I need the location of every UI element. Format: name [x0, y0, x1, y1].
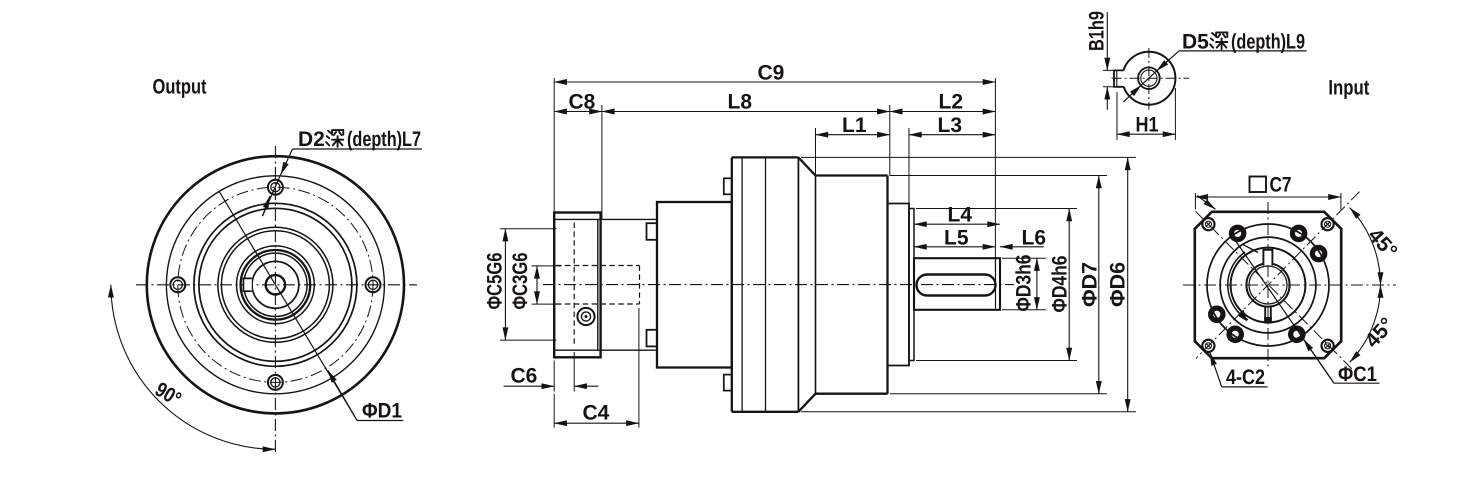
dim L2: [890, 111, 996, 113]
pilot boss circle inner: [199, 208, 352, 361]
corner leader arrow: [1197, 196, 1216, 210]
dim C9: [554, 81, 995, 83]
PhiD1 leader line through center: [219, 191, 357, 420]
svg-text:Output: Output: [153, 76, 207, 99]
svg-text:ΦD1: ΦD1: [362, 400, 402, 423]
clamp screw blob: [1264, 317, 1272, 324]
dim C4: [554, 422, 639, 424]
PhiD1 underline: [357, 420, 403, 422]
90 degree arc: [111, 285, 276, 450]
svg-text:L2: L2: [939, 91, 964, 114]
dim C6 tails: [504, 385, 555, 387]
bore circle inner: [1249, 266, 1287, 304]
bolt circle: [1207, 224, 1329, 346]
motor section rear face: [886, 176, 888, 394]
D2 leader underline: [293, 148, 423, 150]
bolt hole bottom: [268, 375, 283, 390]
hub ring inner: [244, 253, 307, 316]
ring gear section left face: [731, 157, 733, 411]
motor section bottom edge with chamfer: [798, 394, 887, 412]
hidden counterbore depth line: [573, 223, 575, 347]
bolt hole top: [268, 180, 283, 195]
ext line C6 left: [553, 361, 555, 392]
dim PhiC5G6: [504, 229, 506, 340]
dim L6 arrow: [1000, 246, 1044, 248]
dim L8: [602, 111, 890, 113]
pilot boss circle outer: [194, 203, 357, 366]
C7 ext lines: [1195, 193, 1341, 210]
corner screw TL: [1202, 218, 1214, 230]
D5 leader underline: [1179, 50, 1307, 52]
svg-text:C4: C4: [583, 402, 610, 425]
PhiC1 leader: [1231, 235, 1334, 384]
svg-text:C7: C7: [1270, 174, 1292, 197]
dim L3: [909, 134, 995, 136]
B1h9 ext ticks: [1103, 70, 1115, 86]
tapped hole D5 outer: [1138, 67, 1160, 89]
dim PhiD6: [1127, 157, 1129, 411]
clamp lug: [1238, 310, 1248, 322]
svg-text:(depth)L9: (depth)L9: [1231, 30, 1305, 53]
collar gap line: [1242, 244, 1258, 253]
svg-text:ΦC5G6: ΦC5G6: [484, 253, 507, 310]
PhiC1 underline: [1334, 382, 1380, 384]
svg-text:Input: Input: [1328, 76, 1369, 99]
output flange body: [554, 213, 600, 358]
flange step circle: [166, 176, 384, 394]
svg-text:ΦD4h6: ΦD4h6: [1049, 256, 1072, 313]
svg-text:D5: D5: [1182, 30, 1209, 53]
hub ring middle: [241, 250, 311, 320]
shaft keyway slot: [917, 275, 996, 296]
keyseat notch white cut: [1113, 70, 1126, 86]
corner screw BL: [1202, 340, 1214, 352]
flange outer circle: [147, 156, 404, 413]
dim PhiD7: [1098, 176, 1100, 394]
ext line C6 right: [573, 352, 575, 392]
square flange outline (chamfered corners): [1195, 212, 1341, 358]
45 deg arc upper: [1350, 208, 1381, 285]
bore keyway white cut: [1263, 249, 1273, 265]
face boss circle inner: [221, 231, 329, 339]
ring gear top edge: [732, 156, 799, 158]
ext line keyway end (long): [994, 78, 996, 272]
ext line L1 left: [815, 128, 817, 174]
ring gear right face: [797, 157, 799, 411]
dim PhiD3h6: [1036, 258, 1038, 310]
svg-text:D2: D2: [298, 128, 325, 151]
H1 ext lines: [1117, 88, 1175, 140]
bolt hole ring 6: [1211, 308, 1223, 320]
svg-text:90°: 90°: [151, 378, 185, 411]
bolt hole ring 1: [1231, 227, 1243, 239]
svg-text:B1h9: B1h9: [1086, 11, 1109, 51]
detail centerline horizontal: [1112, 77, 1189, 79]
dim C8: [554, 111, 602, 113]
centerline horizontal: [136, 284, 417, 286]
svg-text:ΦC1: ΦC1: [1338, 363, 1377, 386]
svg-text:L8: L8: [728, 91, 753, 114]
square centerline horizontal: [1183, 284, 1396, 286]
corner screw TR: [1322, 218, 1334, 230]
set screw: [577, 308, 594, 325]
ring gear joint line 2: [765, 157, 767, 411]
ext line C8 right / L8 left: [601, 105, 603, 219]
motor section top edge with chamfer: [798, 157, 887, 175]
ext lines PhiD3h6: [1002, 258, 1046, 310]
motor joint line: [815, 176, 817, 394]
bore keyway slot: [243, 278, 251, 291]
svg-text:ΦD6: ΦD6: [1107, 262, 1130, 307]
D2 leader line with two arrows: [281, 149, 293, 175]
housing tab top: [647, 223, 658, 240]
flange chamfer / boss top line: [555, 218, 657, 220]
ext lines PhiD6: [801, 157, 1136, 411]
svg-text:45°: 45°: [1363, 224, 1401, 263]
ext line L3 hub face: [908, 128, 910, 207]
ext line C9/C8 left: [553, 78, 555, 211]
keyseat notch inner line: [1116, 70, 1118, 86]
bolt head tab bottom: [724, 375, 732, 391]
D5 leader with two arrows: [1157, 51, 1179, 71]
svg-text:H1: H1: [1136, 114, 1159, 137]
side view centerline: [543, 284, 1014, 286]
clamp hub circle: [1231, 248, 1306, 323]
dim PhiD4h6: [1068, 209, 1070, 361]
front housing: [657, 202, 732, 368]
shaft end circle: [1122, 52, 1175, 105]
svg-text:ΦD7: ΦD7: [1079, 262, 1102, 307]
svg-text:C8: C8: [569, 91, 596, 114]
dim L1: [816, 134, 890, 136]
ext lines PhiD7: [890, 176, 1107, 394]
dim B1h9 arrows: [1106, 12, 1108, 70]
hidden bore bottom line: [556, 303, 640, 305]
diagonal centerline TL-BR: [1196, 211, 1353, 369]
flange inner edge: [597, 219, 599, 350]
bolt head tab top: [724, 178, 732, 194]
bolt hole ring 2: [1292, 227, 1304, 239]
ext line C4 right: [638, 308, 640, 428]
svg-text:ΦC3G6: ΦC3G6: [509, 253, 532, 310]
diagonal centerline TR-BL: [1196, 192, 1360, 359]
face boss circle outer: [218, 227, 333, 342]
centerline vertical: [274, 146, 276, 455]
cap hub disc: [909, 209, 914, 361]
bolt circle (dash-dot): [178, 187, 373, 382]
dim C7: [1195, 196, 1341, 198]
svg-text:L4: L4: [948, 204, 973, 227]
square centerline vertical: [1267, 202, 1269, 368]
svg-text:L3: L3: [938, 114, 963, 137]
4-C2 leader: [1210, 353, 1222, 387]
hub ring outer: [237, 246, 315, 324]
bolt hole ring 4: [1291, 328, 1303, 340]
ext line L8/L2 rear face: [889, 105, 891, 176]
center hole: [266, 275, 285, 294]
bore circle: [252, 261, 299, 308]
clamp collar arc: [1228, 252, 1248, 320]
ext line C4 left: [553, 394, 555, 428]
dim H1: [1117, 133, 1175, 135]
detail centerline vertical: [1148, 48, 1150, 110]
housing tab bottom: [647, 330, 658, 347]
svg-text:4-C2: 4-C2: [1226, 366, 1265, 389]
input shaft: [914, 258, 1000, 310]
hidden bore end line: [639, 266, 641, 305]
ring gear joint line 1: [741, 157, 743, 411]
4-C2 underline: [1222, 386, 1268, 388]
pilot circle: [1220, 237, 1316, 333]
corner screw BR: [1322, 340, 1334, 352]
bore circle outer: [1246, 263, 1289, 306]
tapped hole D5 inner: [1141, 70, 1157, 86]
svg-text:C9: C9: [758, 62, 785, 85]
svg-text:L1: L1: [842, 114, 867, 137]
svg-text:L6: L6: [1022, 226, 1047, 249]
C7 box symbol: [1250, 177, 1267, 193]
dim PhiC3G6: [536, 266, 538, 304]
clamp slit: [1265, 306, 1271, 323]
45 deg arc lower: [1350, 285, 1381, 362]
svg-text:(depth)L7: (depth)L7: [347, 128, 421, 151]
flange chamfer / boss bottom line: [555, 349, 657, 351]
ext lines PhiC3G6: [532, 266, 562, 304]
shaft end chamfer line: [995, 260, 997, 309]
ext lines PhiC5G6: [500, 229, 557, 340]
bolt hole ring 5: [1229, 328, 1241, 340]
svg-text:ΦD3h6: ΦD3h6: [1013, 255, 1036, 312]
hidden bore top line: [556, 265, 640, 267]
bolt hole ring 3: [1312, 247, 1324, 259]
dim L5: [914, 246, 995, 248]
svg-text:L5: L5: [944, 226, 969, 249]
svg-text:C6: C6: [511, 365, 538, 388]
bolt hole right: [366, 277, 381, 292]
ring gear bottom edge: [732, 411, 799, 413]
svg-text:45°: 45°: [1361, 313, 1399, 352]
keyseat notch outline: [1114, 70, 1124, 86]
bolt hole left: [170, 277, 185, 292]
bore keyway outline: [1263, 250, 1272, 266]
dim L4: [914, 223, 1000, 225]
ext lines PhiD4h6: [916, 209, 1077, 361]
rear cap: [888, 204, 910, 366]
